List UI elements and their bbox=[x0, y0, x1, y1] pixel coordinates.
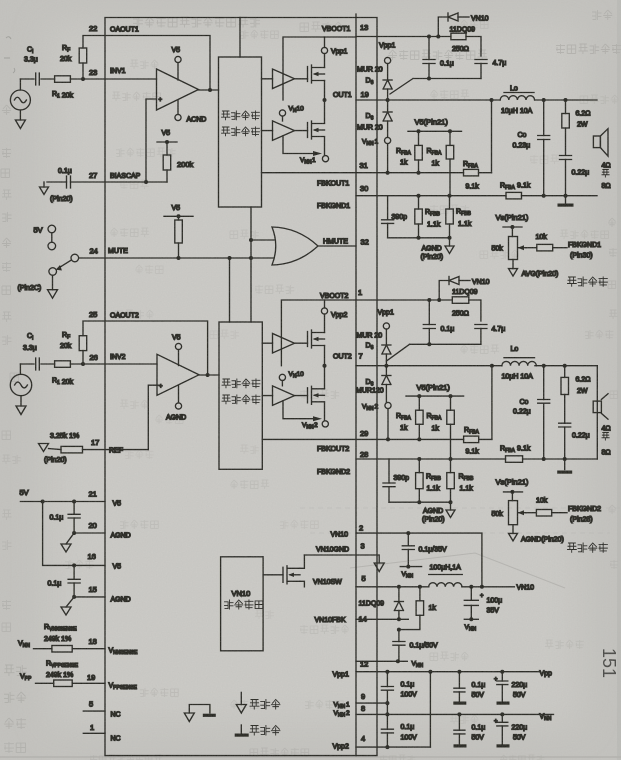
inductor Lo 10uH 10A (ch1) bbox=[500, 96, 534, 100]
wire OR gate top input bbox=[251, 239, 274, 241]
capacitor 0.1u (V5 a) bbox=[73, 502, 75, 515]
transistor M2 (ch1 low-side MOSFET) bbox=[308, 121, 325, 139]
transistor M1 (ch1 high-side MOSFET) bbox=[308, 65, 325, 83]
wire ch2 low-side source arrow to VNN2 bbox=[283, 401, 318, 419]
resistor RFBA 1k (ch2 a) bbox=[418, 396, 420, 410]
V5(Pin21) rail (ch2) bbox=[406, 395, 464, 397]
output stage box (ch2) bbox=[281, 300, 356, 366]
resistor Rf 20k (ch1 feedback) bbox=[79, 48, 87, 63]
resistor 10k (ch1 bias trim) bbox=[537, 244, 553, 251]
ground ((Pin20) REF) bbox=[39, 444, 49, 452]
capacitor Co 0.22u (ch2) bbox=[543, 366, 545, 400]
capacitor 220u 50V (VNN) bbox=[501, 714, 503, 722]
wire MUTE pin 24 bbox=[79, 257, 274, 259]
V5 tap (200k pull-up) bbox=[157, 141, 177, 143]
legend: power ground symbol bbox=[240, 725, 242, 734]
label bias trim (ch1) bbox=[568, 277, 577, 286]
V5 terminal (op-amp2 supply) bbox=[175, 343, 181, 349]
wire VNN2 pin 8 rail bbox=[356, 713, 554, 715]
capacitor Ci 3.3u (ch2 input) bbox=[36, 358, 40, 370]
wire Vpp2 pin 4 bbox=[356, 746, 430, 748]
resistor 1k (VN10) bbox=[419, 587, 421, 601]
wire VNN1 pin 9 bbox=[356, 702, 387, 704]
Vpp1 terminal (ch2 external) bbox=[383, 323, 389, 329]
wire R1 to pin 26 bbox=[70, 363, 157, 365]
wire box1 to OR and box2 bbox=[250, 207, 252, 322]
wire Vpp1 cap top bbox=[386, 672, 388, 687]
wire FBKOUT2 pin 28 bbox=[356, 458, 597, 460]
ground (pin15 bypass) bbox=[66, 597, 74, 607]
ground ((Pin20) mute) bbox=[52, 275, 54, 289]
capacitor 0.1u/50V bbox=[398, 630, 400, 642]
wire HMUTE output pin 32 bbox=[318, 245, 356, 247]
capacitor 0.1u 100V (upper) bbox=[381, 687, 393, 691]
wire VBOOT1 pin 13 bbox=[356, 37, 481, 57]
potentiometer 50k (ch1 bias trim) bbox=[509, 237, 518, 260]
ground bar (0.1u Vpp) bbox=[453, 702, 466, 705]
wire Vpp tie bbox=[429, 672, 431, 747]
VNN tick (0.1u/35V) bbox=[400, 566, 421, 568]
capacitor 0.1u (ch2 bootstrap) bbox=[428, 300, 430, 325]
capacitor Co 0.23u (ch1) bbox=[543, 100, 545, 136]
wire OUT2 feedback tap bbox=[491, 366, 493, 440]
wire OUT1 feedback tap bbox=[491, 100, 493, 173]
capacitor 0.1u (ch1 bootstrap) bbox=[428, 37, 430, 60]
wire to FBKGND2 label bbox=[552, 512, 567, 514]
resistor 6.2 ohm 2W (ch1) bbox=[565, 100, 567, 114]
resistor mute pull-up to V5 bbox=[164, 215, 193, 217]
V5 terminal (op-amp1 supply) bbox=[175, 56, 181, 62]
resistor 10k (ch2 bias trim) bbox=[536, 510, 551, 517]
buffer (ch2 high-side driver) bbox=[273, 333, 295, 353]
resistor 6.2 ohm 2W (ch2) bbox=[564, 366, 566, 378]
wire op-amp2 + input to REF bbox=[148, 385, 160, 449]
wire VN10 pin 2 sense bbox=[356, 533, 482, 587]
resistor RFBB 1.1k (ch1 a) bbox=[418, 196, 420, 209]
resistor RFBA 1k (ch2 b) bbox=[450, 396, 452, 410]
buffer (ch1 high-side driver) bbox=[273, 69, 295, 89]
wire FBKGND rail (ch1) bbox=[388, 237, 450, 239]
node INV1 junction bbox=[81, 77, 85, 81]
wire OUT2 pin 7 bbox=[356, 365, 597, 367]
potentiometer 50k (ch2 bias trim) bbox=[509, 501, 518, 525]
AGND terminal (op-amp2) bbox=[175, 403, 181, 409]
capacitor Ci 3.3u (ch1 input) bbox=[36, 73, 40, 85]
capacitor 0.1u 100V (lower) bbox=[381, 729, 393, 733]
wire 5V branch to pin 16 bbox=[43, 502, 105, 566]
ground (ch2 source) bbox=[16, 406, 26, 415]
capacitor 390p (ch2) bbox=[388, 459, 390, 483]
VN10 terminal (ch2 low-side buffer) bbox=[279, 374, 285, 380]
V5(Pin21) rail (ch1) bbox=[408, 130, 462, 132]
resistor RVPPSENSE 249k 1% bbox=[36, 682, 54, 684]
VNN2 terminal (ch2 external) bbox=[385, 402, 391, 408]
resistor Rf 20k (ch2 feedback) bbox=[79, 336, 87, 351]
op-amp U1b (ch2) bbox=[157, 354, 199, 395]
ground bar (0.1u VNN) bbox=[454, 744, 467, 747]
wire op-amp1 output to modulator box1 bbox=[199, 89, 219, 91]
wire OAOUT2 pin 25 bbox=[83, 321, 208, 375]
buffer (ch1 low-side driver) bbox=[273, 121, 295, 141]
wire INV2 input bbox=[20, 363, 54, 365]
legend: ground equivalence bbox=[189, 705, 210, 714]
wire top border to box1 bbox=[239, 18, 241, 58]
resistor RFBB 1.1k (ch2 b) bbox=[450, 459, 452, 473]
node mute branch bbox=[228, 256, 232, 260]
ground bar (220u Vpp) bbox=[497, 702, 510, 705]
resistor 3.25k 1% (REF) bbox=[61, 446, 83, 453]
inductor Lo 10uH 10A (ch2) bbox=[502, 361, 536, 365]
ground AGND (Pin20) (ch1 fbk) bbox=[449, 238, 451, 246]
VNN tick (100u) bbox=[464, 618, 478, 620]
Vpp1 terminal (ch1 high-side drain) bbox=[324, 37, 326, 47]
buffer (ch2 low-side driver) bbox=[273, 386, 295, 406]
capacitor 4.7u (ch1 bootstrap) bbox=[475, 60, 487, 64]
wire FBKOUT1 pin 30 bbox=[356, 195, 597, 197]
capacitor 0.22u (ch2 zobel) bbox=[559, 423, 571, 427]
label bias trim (ch2) bbox=[568, 543, 577, 552]
node op-amp1 output bbox=[208, 88, 212, 92]
wire to FBKGND1 label bbox=[553, 247, 567, 249]
diode 11DQ09 (ch1 bootstrap) bbox=[438, 17, 448, 37]
block: signal processing / modulation circuit (ch2) bbox=[219, 322, 262, 469]
diode 11DQ09 (VN10) bbox=[398, 587, 400, 601]
legend: analog ground symbol bbox=[240, 692, 242, 704]
block: VN10 generation circuit bbox=[221, 557, 264, 651]
block: signal processing / modulation circuit (ch1) bbox=[219, 57, 262, 207]
ground AGND (Pin20) (ch2 fbk) bbox=[450, 502, 452, 510]
output stage box (ch1) bbox=[283, 37, 356, 100]
wire VN10SW pin 5 bbox=[356, 586, 514, 588]
ground bar (ch1 output) bbox=[565, 196, 567, 204]
ACND terminal (op-amp1) bbox=[175, 114, 181, 120]
wire BIASCAP pin 27 bbox=[47, 181, 167, 183]
resistor 200k bbox=[166, 142, 168, 155]
wire AGND pin 15 bbox=[74, 596, 105, 598]
ground AGND(Pin20) (ch2 pot) bbox=[512, 525, 514, 534]
wire speaker branch (ch2) bbox=[596, 366, 598, 459]
OR gate (HMUTE logic) bbox=[272, 227, 318, 265]
wire op-amp1 + input to BIASCAP bbox=[146, 99, 157, 182]
wire pin 29 feedback rail (ch2) bbox=[262, 438, 492, 440]
wire VNN1 to pin 31 rail bbox=[387, 144, 389, 173]
op-amp U1a (ch1) bbox=[157, 69, 199, 110]
transistor M5 (VN10 switch) bbox=[263, 574, 283, 576]
wire AGND pin 20 bbox=[74, 532, 105, 534]
node BIASCAP-V5 divider bbox=[144, 180, 148, 184]
wire VN10GND pin 3 bbox=[304, 555, 379, 563]
resistor RFBA 1k (ch1 a) bbox=[418, 131, 420, 145]
wire VNN1-VNN2 link bbox=[386, 690, 388, 729]
speaker (ch1) bbox=[593, 136, 600, 148]
capacitor 4.7u (ch2 bootstrap) bbox=[475, 325, 487, 329]
wire Vpp1 rail bbox=[356, 671, 539, 673]
ground (BIASCAP, Pin20) bbox=[43, 182, 45, 187]
transistor M3 (ch2 high-side MOSFET) bbox=[308, 330, 325, 348]
wire FBKGND rail (ch2) bbox=[389, 501, 451, 503]
wire op-amp2 output to modulator box2 bbox=[199, 374, 219, 376]
ground bar (220u VNN) bbox=[497, 744, 510, 747]
wire bootstrap return to OUT1 (ch1) bbox=[390, 79, 481, 95]
Vpp1 terminal (ch1 external) bbox=[385, 57, 391, 63]
node OUT1 internal bbox=[323, 98, 327, 102]
resistor RFBB 1.1k (ch1 b) bbox=[449, 196, 451, 209]
capacitor 0.1u 50V (VNN) bbox=[458, 714, 460, 730]
AC source (ch1 signal input) bbox=[10, 90, 30, 110]
VNN1 terminal (internal) bbox=[322, 156, 328, 162]
capacitor 0.1u (BIASCAP) bbox=[67, 176, 71, 188]
ground bar (ch2 output) bbox=[564, 459, 566, 470]
ground (pin20 bypass) bbox=[66, 533, 74, 544]
capacitor 220u 50V (Vpp) bbox=[501, 672, 503, 681]
transistor M4 (ch2 low-side MOSFET) bbox=[308, 386, 325, 404]
capacitor 0.1u (V5 b) bbox=[73, 565, 75, 579]
capacitor 390p (ch1) bbox=[387, 196, 389, 220]
pin NC stub 2 bbox=[83, 732, 105, 734]
capacitor 100u/35V bbox=[470, 587, 472, 601]
VN10 terminal (ch1 low-side buffer) bbox=[279, 110, 285, 116]
Vpp2 terminal (ch2 high-side drain) bbox=[324, 300, 326, 308]
node op-amp2 output bbox=[206, 373, 210, 377]
capacitor 0.1u/35V bbox=[407, 533, 409, 546]
wire mute to box2 bbox=[229, 258, 231, 322]
speaker (ch2) bbox=[593, 401, 601, 413]
wire pin 31 feedback rail (ch1) bbox=[262, 172, 492, 174]
resistor RVNNSENSE 249k 1% bbox=[34, 648, 52, 650]
capacitor 0.22u (ch1 zobel) bbox=[560, 156, 572, 160]
wire VN10FBK pin 14 bbox=[356, 618, 408, 620]
resistor 250 ohm (ch1 bootstrap) bbox=[451, 33, 466, 40]
wire bootstrap return to OUT2 (ch2) bbox=[386, 344, 481, 361]
IC U1 TA2022 package outline bbox=[105, 18, 377, 756]
wire R1 to pin 23 bbox=[70, 78, 156, 80]
resistor RFBB 1.1k (ch2 a) bbox=[418, 459, 420, 473]
VNN2 terminal (internal) bbox=[322, 421, 328, 427]
resistor RFBA 9.1k (ch1 tap) bbox=[464, 169, 479, 176]
wire INV1 input bbox=[20, 78, 54, 80]
ground AVG(Pin20) (ch1 pot) bbox=[512, 260, 514, 269]
node mute pull-up bbox=[177, 256, 181, 260]
node INV2 junction bbox=[81, 362, 85, 366]
resistor RFBA 1k (ch1 b) bbox=[449, 131, 451, 145]
resistor 250 ohm (ch2 bootstrap) bbox=[452, 297, 469, 304]
wire VBOOT2 pin 1 bbox=[356, 300, 481, 321]
resistor RFBA 9.1k (ch2 tap) bbox=[464, 436, 479, 443]
VNN1 terminal (ch1 external) bbox=[385, 137, 391, 143]
wire VNN pin 12 bbox=[356, 660, 407, 662]
wire OAOUT1 pin 22 to Rf and op-amp output bbox=[83, 36, 210, 91]
wire OUT1 pin 19 bbox=[356, 99, 597, 101]
switch SW1 (mute select) bbox=[48, 225, 56, 233]
wire VNN2 to pin 29 rail bbox=[387, 409, 389, 440]
IC right inner separator line bbox=[355, 14, 357, 756]
resistor R1 20k (ch2) bbox=[55, 361, 71, 368]
ground (VN10GND) bbox=[374, 563, 384, 572]
AC source (ch2 signal input) bbox=[10, 374, 31, 395]
resistor RFBA 9.1k (ch2 fbk) bbox=[506, 456, 523, 463]
inductor 100uH 1A bbox=[429, 583, 462, 587]
diode 11DQ09 (ch2 bootstrap) bbox=[439, 281, 449, 301]
resistor R1 20k (ch1) bbox=[55, 76, 71, 83]
ground (ch1 source) bbox=[15, 120, 25, 129]
wire low-side source arrow to VNN1 bbox=[283, 136, 318, 154]
wire REF pin 17 bbox=[49, 449, 149, 450]
capacitor 0.1u 50V (Vpp) bbox=[458, 672, 460, 689]
resistor RFBA 9.1k (ch1 fbk) bbox=[506, 192, 522, 199]
pin 5 NC stub bbox=[83, 710, 105, 712]
node OUT2 internal bbox=[323, 364, 327, 368]
